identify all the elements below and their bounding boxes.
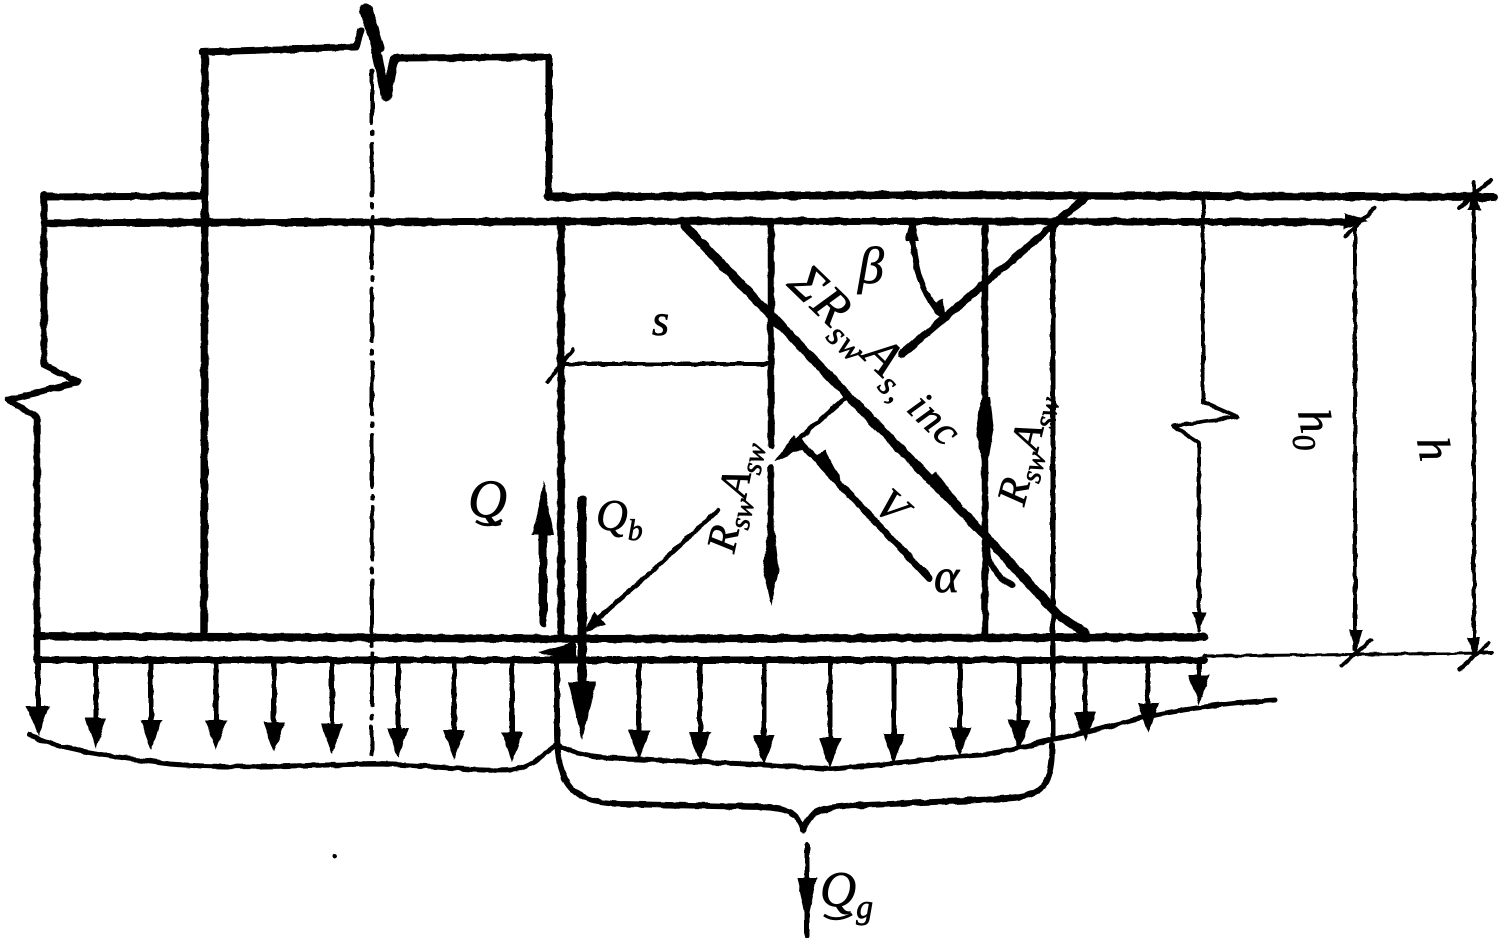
junction ink patch <box>538 641 576 662</box>
distributed load arrow q19 (x=1199) <box>1197 664 1202 677</box>
bent-up bar force arrow D3 <box>790 398 845 447</box>
distributed load arrows <box>27 664 1210 768</box>
distributed load arrow q1 (x=38) <box>36 664 41 708</box>
brace for Qg <box>557 664 1052 830</box>
s dimension line <box>561 362 769 366</box>
column top break mark <box>366 8 397 97</box>
h0 bottom arrow <box>1349 630 1363 652</box>
distributed load arrow q16 (x=1019) <box>1017 664 1022 722</box>
stirrup 2 <box>768 222 775 530</box>
distributed load arrow q11 (x=700) <box>698 664 703 734</box>
column top edge right part <box>396 57 549 58</box>
h0 dimension arrow at inner chord <box>1344 213 1368 229</box>
distributed load arrow q7 (x=398) <box>396 664 401 730</box>
left beam edge with break zigzag <box>8 195 79 660</box>
beam bottom upper chord line <box>37 636 1204 639</box>
distributed load arrow q9 (x=512) <box>510 664 515 734</box>
beam top inner chord line <box>44 221 1352 223</box>
beam top outer chord line (right of column) <box>548 195 1494 197</box>
distributed load arrow q3 (x=151) <box>149 664 154 722</box>
distributed load arrow q12 (x=764) <box>762 664 767 737</box>
tiny stray dot <box>333 854 338 859</box>
distributed load arrow q6 (x=332) <box>330 664 335 726</box>
beam top outer chord line (left of column) <box>44 196 205 197</box>
distributed load arrow q18 (x=1148) <box>1146 664 1151 705</box>
svg-text:Qb: Qb <box>596 491 643 547</box>
force arrowhead on crack <box>925 471 978 526</box>
stirrup 3 <box>982 222 989 634</box>
vertical bar at crack foot <box>1051 225 1056 740</box>
distributed load arrow q5 (x=274) <box>272 664 277 724</box>
inclined force line V <box>800 442 929 578</box>
distributed load arrow q13 (x=830) <box>828 664 833 740</box>
distributed load arrow q4 (x=216) <box>214 664 219 722</box>
s dimension tick <box>548 349 573 381</box>
centerline (dash-dot axis) <box>370 70 374 755</box>
inclined crack D1 <box>685 226 1085 633</box>
bottom dimension extension line <box>1204 653 1492 656</box>
h0 dimension line <box>1353 228 1357 649</box>
stirrup 3 force arrowhead Rsw-Asw <box>976 397 994 478</box>
distributed load arrow q14 (x=894) <box>892 664 897 736</box>
svg-text:h: h <box>1407 433 1461 465</box>
distributed load arrow q10 (x=639) <box>637 664 642 732</box>
beam bottom lower chord line <box>37 657 1204 664</box>
stirrup 2 force arrowhead Rsw-Asw <box>769 520 774 560</box>
distributed load arrow q2 (x=96) <box>94 664 99 720</box>
stirrup 1 (support axis) <box>557 222 565 633</box>
column right edge <box>546 57 553 197</box>
angle beta arc <box>912 224 944 318</box>
svg-text:h0: h0 <box>1281 405 1345 453</box>
arrowhead on V line <box>814 450 850 498</box>
resultant arrow Qg <box>805 845 810 936</box>
column top edge left part <box>202 30 361 52</box>
svg-text:β: β <box>857 238 884 295</box>
distributed load arrow q17 (x=1085) <box>1083 664 1088 714</box>
svg-text:α: α <box>934 550 960 603</box>
column left edge / stirrup <box>204 52 205 635</box>
support reaction arrow Q <box>539 530 547 624</box>
h bottom arrow <box>1467 637 1481 659</box>
bent-up bar upper segment D2 <box>902 197 1086 354</box>
wavy load line <box>30 700 1275 770</box>
angle alpha arc <box>987 547 1012 585</box>
h dimension line <box>1472 182 1476 655</box>
svg-text:RswAsw: RswAsw <box>699 436 774 559</box>
distributed load arrow q8 (x=454) <box>452 664 457 732</box>
right beam break line with zigzag <box>1173 198 1237 630</box>
svg-text:s: s <box>652 296 669 345</box>
distributed load arrow q15 (x=960) <box>958 664 963 729</box>
leader line to crack foot (Rsw Asw pointer) <box>592 510 718 624</box>
h top arrow <box>1467 188 1481 210</box>
shear force arrow Qb <box>578 500 587 690</box>
svg-text:V: V <box>865 479 922 537</box>
